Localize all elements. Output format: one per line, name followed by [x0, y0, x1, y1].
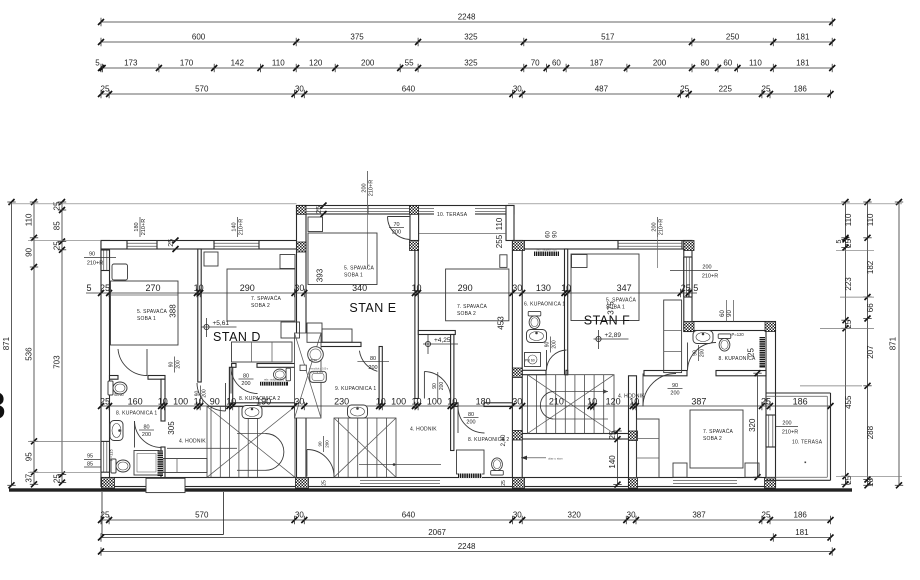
- wall stan F bath bottom b: [716, 371, 766, 376]
- level mark +2,89 stan F: [596, 336, 601, 341]
- svg-text:455: 455: [844, 395, 853, 409]
- svg-text:7. SPAVAĆA: 7. SPAVAĆA: [703, 428, 734, 435]
- svg-text:210+R: 210+R: [141, 219, 147, 235]
- svg-text:210+R: 210+R: [702, 274, 718, 280]
- svg-text:37: 37: [25, 473, 34, 482]
- top dimension row total 2248: [101, 21, 832, 23]
- svg-text:25: 25: [680, 85, 689, 94]
- svg-text:200: 200: [202, 389, 208, 398]
- svg-text:110: 110: [272, 59, 285, 68]
- svg-text:90: 90: [545, 342, 551, 348]
- svg-text:SOBA 2: SOBA 2: [251, 303, 270, 309]
- svg-text:25: 25: [844, 238, 853, 247]
- door stan D bedroom1 (90/200): [118, 349, 147, 376]
- wall stan E bath1 top: [306, 342, 361, 346]
- svg-text:130: 130: [536, 283, 551, 293]
- window label 180/210+R stan D: [139, 217, 141, 237]
- svg-text:10: 10: [411, 397, 421, 407]
- exterior wall right stan F lower: [766, 331, 776, 488]
- exterior wall right stan F upper: [684, 241, 692, 332]
- extension line terrace top to right columns: [508, 203, 902, 205]
- wall stan F bathroom top: [692, 322, 776, 331]
- radiator stan D bath2: [260, 382, 288, 386]
- svg-text:30: 30: [627, 511, 636, 520]
- door stan D hall (90/200): [197, 383, 226, 411]
- door label 90/200 stan F hall: [668, 388, 683, 390]
- wall stan F hall/bedroom2 vertical: [629, 376, 637, 487]
- party wall stan E/F: [512, 241, 522, 488]
- bidet stan F bath1: [527, 330, 547, 343]
- wall stan E bath2 top b: [484, 403, 512, 407]
- pier party E/F at stair wall: [512, 368, 522, 378]
- level mark +5,61 stan D: [204, 324, 209, 329]
- washbasin stan D bath2: [242, 406, 262, 419]
- svg-text:640: 640: [402, 85, 416, 94]
- svg-text:871: 871: [2, 336, 11, 350]
- window label 200/210+R stan F top: [657, 217, 659, 237]
- svg-text:7. SPAVAĆA: 7. SPAVAĆA: [457, 303, 488, 310]
- svg-text:80: 80: [468, 412, 474, 418]
- svg-text:8. KUPAONICA 1: 8. KUPAONICA 1: [116, 411, 157, 417]
- svg-text:536: 536: [25, 347, 34, 361]
- svg-text:200: 200: [782, 421, 791, 427]
- svg-text:+2,89: +2,89: [605, 332, 622, 339]
- toilet stan D bath2: [273, 368, 290, 381]
- right dimension column 110-182-66-207-288-18: [867, 202, 869, 485]
- toilet stan D bath1 upper: [108, 381, 127, 395]
- svg-text:60: 60: [546, 231, 552, 238]
- window label 200/210+R terrace E: [367, 171, 369, 205]
- terrace parapet glazing right section: [419, 208, 435, 210]
- dresser stan E left 2: [322, 329, 352, 342]
- svg-text:2067: 2067: [428, 528, 446, 537]
- svg-text:7. SPAVAĆA: 7. SPAVAĆA: [251, 295, 282, 302]
- door label 80/200 stan D bath2: [239, 378, 254, 380]
- wall stan D bedroom1 bottom b: [148, 376, 165, 380]
- staircase stan D: [207, 407, 295, 478]
- svg-text:703: 703: [53, 355, 62, 369]
- svg-text:70: 70: [531, 59, 540, 68]
- below-ground stair outline left: [101, 492, 103, 535]
- interior vertical dim 25-140 (stan F hall): [617, 431, 619, 485]
- svg-text:bojler na zidu: bojler na zidu: [309, 371, 324, 374]
- door stan F bath1 (90/200): [547, 350, 567, 370]
- svg-text:55: 55: [405, 59, 414, 68]
- svg-text:290: 290: [240, 283, 255, 293]
- terrace parapet top stan E: [297, 206, 515, 215]
- svg-text:3: 3: [0, 386, 6, 428]
- radiator stan F bath2: [760, 337, 766, 368]
- extension line right bath wall y386: [800, 385, 862, 387]
- svg-text:18: 18: [866, 477, 875, 486]
- svg-text:ulaz u stan: ulaz u stan: [548, 457, 563, 461]
- svg-text:25: 25: [762, 511, 771, 520]
- washbasin stan D bath1: [110, 421, 123, 441]
- svg-text:85: 85: [53, 221, 62, 230]
- shower tray stan E bath2: [457, 450, 485, 474]
- svg-text:570: 570: [195, 85, 209, 94]
- svg-text:110: 110: [749, 59, 762, 68]
- svg-text:95: 95: [25, 452, 34, 461]
- shower stan D bath1: [134, 451, 159, 476]
- staircase stan F: [528, 375, 615, 434]
- svg-text:25: 25: [322, 480, 328, 486]
- svg-text:110: 110: [495, 217, 504, 230]
- wall stan F bath bottom a: [644, 371, 687, 376]
- door label 90/200 stan F bath1: [550, 337, 552, 353]
- svg-text:210+R: 210+R: [782, 430, 798, 436]
- wall stan D bath1/hall b: [161, 447, 165, 478]
- svg-text:10: 10: [376, 397, 386, 407]
- svg-text:25: 25: [608, 430, 617, 439]
- bottom dimension row 25-570-30-640-30-320-30-387-25-186: [101, 519, 831, 521]
- radiator stan D corridor: [158, 451, 164, 477]
- svg-text:320: 320: [568, 511, 582, 520]
- bottom dimension row 2067 and 181: [101, 537, 831, 539]
- right dimension column 110-5-25-223-25-455-25: [845, 202, 847, 484]
- window stan D bedroom2 (140/210+R): [214, 241, 259, 250]
- nightstand stan D bedroom1: [112, 264, 128, 280]
- walk line stan E corridor: [359, 464, 441, 466]
- door stan D bath2 (80/200): [231, 367, 258, 393]
- svg-text:570: 570: [195, 511, 209, 520]
- svg-text:90: 90: [89, 252, 95, 258]
- toilet stan F bath1: [528, 311, 541, 328]
- pier stan F bath top right: [765, 322, 776, 332]
- svg-text:210+R: 210+R: [239, 219, 245, 235]
- svg-text:200: 200: [653, 59, 667, 68]
- svg-text:95: 95: [87, 454, 93, 460]
- svg-text:8. KUPAONICA: 8. KUPAONICA: [719, 356, 757, 362]
- svg-text:200: 200: [466, 420, 475, 426]
- svg-text:200: 200: [142, 432, 151, 438]
- svg-text:PR 60: PR 60: [525, 359, 535, 363]
- svg-text:25: 25: [100, 283, 110, 293]
- svg-text:SOBA 1: SOBA 1: [137, 316, 156, 322]
- nightstand stan E bedroom1: [308, 217, 323, 232]
- svg-text:80: 80: [243, 374, 249, 380]
- party wall stan D/E: [297, 206, 307, 487]
- svg-text:25: 25: [761, 397, 771, 407]
- svg-text:80: 80: [701, 59, 710, 68]
- svg-text:SOBA 1: SOBA 1: [344, 273, 363, 279]
- closet stan F hall: [664, 300, 682, 373]
- door stan E bath2 (80/200): [458, 407, 485, 434]
- svg-text:SOBA 1: SOBA 1: [606, 305, 625, 311]
- bathtub stan E bath1: [310, 371, 327, 382]
- pier stan F bath top left: [684, 322, 694, 332]
- dresser stan E left: [307, 323, 322, 342]
- svg-text:255: 255: [495, 234, 504, 248]
- window label 140/210+R stan D: [237, 217, 239, 237]
- svg-text:871: 871: [889, 336, 898, 350]
- washing machine stan F bath1: [525, 353, 541, 367]
- wall stan D bath1/hall a: [161, 379, 165, 421]
- svg-text:10: 10: [226, 397, 236, 407]
- svg-text:25: 25: [53, 241, 62, 250]
- svg-text:25: 25: [101, 85, 110, 94]
- wall box stan E bath1: [300, 365, 306, 371]
- interior dimension row A (room widths 270/290/340/290/130/347): [86, 292, 697, 294]
- bed stan D bedroom2: [227, 269, 295, 321]
- svg-text:200: 200: [325, 440, 330, 448]
- svg-text:25: 25: [762, 85, 771, 94]
- svg-text:5: 5: [95, 59, 100, 68]
- svg-text:90: 90: [672, 383, 678, 389]
- bed stan E bedroom2: [446, 269, 509, 321]
- wall stan F stair hall bottom: [522, 434, 628, 440]
- interior vertical dim 320 (stan F terrace wall): [757, 373, 759, 477]
- pier party D/E at parapet: [297, 206, 307, 215]
- svg-text:207: 207: [866, 345, 875, 359]
- right dimension column 871: [898, 202, 900, 485]
- door label 90/200 stan F bath right: [698, 345, 700, 361]
- door label 90/200 stan E bedroom1: [437, 372, 439, 400]
- bed stan F bedroom1: [571, 254, 639, 321]
- pier stan F southeast: [765, 478, 776, 489]
- svg-text:200: 200: [392, 230, 401, 236]
- wall stan D bath2 left: [229, 367, 232, 403]
- wall stan D stair top: [233, 403, 297, 407]
- svg-text:210+R: 210+R: [87, 261, 103, 267]
- pillow stan D bedroom2: [280, 255, 295, 269]
- svg-text:250: 250: [726, 33, 740, 42]
- closet stan F bedroom2: [637, 419, 660, 478]
- svg-text:25: 25: [53, 474, 62, 483]
- svg-text:5. SPAVAĆA: 5. SPAVAĆA: [344, 265, 375, 272]
- svg-text:181: 181: [795, 528, 809, 537]
- svg-text:90: 90: [210, 397, 220, 407]
- left dimension column 871: [11, 202, 13, 485]
- svg-text:210: 210: [549, 397, 564, 407]
- bottom dimension row 2248: [101, 551, 832, 553]
- svg-text:60: 60: [552, 59, 561, 68]
- svg-text:290: 290: [458, 283, 473, 293]
- wall stan E hall horizontal: [418, 331, 455, 335]
- svg-text:30: 30: [512, 397, 522, 407]
- door label 90/200 stan D bedroom1: [174, 357, 176, 373]
- extension line right terrace bottom: [836, 475, 902, 477]
- exterior wall south: [101, 478, 776, 487]
- svg-text:25: 25: [53, 201, 62, 210]
- svg-text:200: 200: [652, 222, 658, 231]
- svg-text:25: 25: [844, 319, 853, 328]
- svg-text:2248: 2248: [458, 13, 476, 22]
- radiator stan F top wall: [534, 252, 559, 257]
- cabinet row stan D living: [232, 342, 293, 362]
- nightstand stan F bedroom2 right: [745, 463, 759, 477]
- entry arrow stan F: [521, 457, 546, 459]
- svg-text:4. HODNIK: 4. HODNIK: [179, 439, 206, 445]
- svg-text:388: 388: [169, 304, 178, 318]
- svg-text:325: 325: [464, 59, 478, 68]
- svg-text:517: 517: [601, 33, 615, 42]
- svg-text:100: 100: [427, 397, 442, 407]
- svg-text:SOBA 2: SOBA 2: [703, 436, 722, 442]
- svg-text:110: 110: [866, 213, 875, 226]
- svg-text:85: 85: [87, 462, 93, 468]
- svg-text:90: 90: [553, 231, 559, 238]
- terrace parapet right return: [506, 206, 514, 241]
- svg-text:90: 90: [318, 441, 323, 447]
- pier stan F top right corner: [684, 241, 694, 251]
- svg-text:181: 181: [796, 59, 810, 68]
- svg-text:5: 5: [86, 283, 91, 293]
- partition stan D bedrooms: [198, 249, 201, 382]
- svg-text:200: 200: [700, 349, 706, 358]
- wall stan E bath2 left: [451, 335, 454, 451]
- svg-text:90: 90: [25, 247, 34, 256]
- svg-text:10: 10: [561, 283, 571, 293]
- pier stan E bedroom/terrace wall: [410, 241, 419, 251]
- svg-text:80: 80: [143, 425, 149, 431]
- svg-text:90: 90: [727, 310, 733, 317]
- door stan D bath1 (80/200): [135, 421, 162, 448]
- svg-text:487: 487: [595, 85, 609, 94]
- bed stan D bedroom1: [111, 281, 179, 345]
- wall between stan E bedroom and terrace: [410, 214, 419, 241]
- svg-text:10: 10: [158, 397, 168, 407]
- svg-text:25: 25: [100, 397, 110, 407]
- svg-text:60: 60: [720, 310, 726, 317]
- staircase stan E: [334, 418, 396, 477]
- extension line right wall y328: [820, 327, 874, 329]
- svg-text:30: 30: [513, 511, 522, 520]
- wall stan E bath2 top a: [454, 403, 458, 407]
- pier party D/E at main wall: [297, 242, 307, 252]
- window left wall stan D bath (95/85): [101, 441, 110, 472]
- door stan E bedroom1 (90/200): [424, 372, 450, 399]
- extension line right wall y250: [836, 250, 874, 252]
- svg-text:453: 453: [497, 316, 506, 330]
- svg-text:200: 200: [439, 382, 445, 391]
- svg-text:200: 200: [361, 59, 375, 68]
- svg-text:30: 30: [295, 85, 304, 94]
- svg-text:305: 305: [167, 421, 176, 435]
- window stan D bedroom1 (180/210+R): [127, 241, 157, 250]
- top dimension row detail: [101, 67, 832, 69]
- level mark +4,25 stan E: [425, 341, 430, 346]
- svg-text:5. SPAVAĆA: 5. SPAVAĆA: [137, 308, 168, 315]
- svg-text:110: 110: [25, 213, 34, 226]
- svg-text:rebr. radijator 600: rebr. radijator 600: [536, 247, 557, 251]
- window/door stan F to terrace (200/210+R): [766, 415, 776, 447]
- svg-text:80: 80: [370, 356, 376, 362]
- top dimension row walls 25-570-30-640-30-487-25-225-25-186: [101, 93, 831, 95]
- svg-text:288: 288: [866, 425, 875, 439]
- partition stan F bath1/bedroom: [565, 249, 568, 375]
- wall stan E bath1 right: [379, 347, 382, 407]
- radiator stan E bath2: [458, 474, 482, 479]
- svg-text:200: 200: [241, 381, 250, 387]
- svg-text:25: 25: [501, 480, 507, 486]
- svg-text:5. SPAVAĆA: 5. SPAVAĆA: [606, 297, 637, 304]
- svg-text:90: 90: [169, 362, 175, 368]
- pier stan F hall wall mid: [629, 431, 638, 441]
- window stan F right wall (200/210+R): [684, 257, 692, 297]
- window south wall stan F bedroom2: [673, 478, 737, 486]
- partition stan E bedroom1: [415, 250, 418, 399]
- pier party E/F top: [512, 241, 524, 251]
- door label 80/200 stan E bath2: [464, 417, 479, 419]
- door label 80/200 stan D bath1: [139, 429, 154, 431]
- svg-text:5: 5: [836, 239, 843, 243]
- svg-text:387: 387: [691, 397, 706, 407]
- round washbasin stan E bath1: [308, 347, 324, 363]
- extension line window top left: [28, 440, 101, 442]
- terrace stan F outline: [766, 392, 831, 394]
- svg-text:230: 230: [334, 397, 349, 407]
- door stan E bedroom to terrace (70/200): [387, 217, 410, 240]
- exterior wall top stan F: [514, 241, 692, 250]
- svg-text:+4,25: +4,25: [434, 337, 451, 344]
- svg-text:10: 10: [194, 283, 204, 293]
- wall stan D bath2 top b: [257, 364, 297, 368]
- svg-text:347: 347: [617, 283, 632, 293]
- stair void between stan D and E (crossed): [295, 333, 322, 418]
- svg-text:10: 10: [587, 397, 597, 407]
- svg-text:30: 30: [513, 85, 522, 94]
- svg-text:393: 393: [316, 268, 325, 282]
- svg-text:8. KUPAONICA 2: 8. KUPAONICA 2: [468, 437, 509, 443]
- door stan F hall to bedroom2 (90/200): [643, 374, 676, 407]
- svg-text:90: 90: [693, 350, 699, 356]
- entry porch box on ground stan D: [146, 478, 185, 492]
- door label 70/200 terrace E: [389, 227, 404, 229]
- door label 90/200 stan D hall: [200, 386, 202, 402]
- svg-text:187: 187: [590, 59, 604, 68]
- pier stan F hall wall bottom: [629, 478, 638, 489]
- extension line terrace top to left columns: [8, 203, 297, 205]
- wardrobe stan D corridor: [163, 459, 207, 473]
- svg-text:186: 186: [794, 511, 808, 520]
- svg-text:90: 90: [195, 391, 201, 397]
- leader line window label terrace E: [367, 205, 369, 268]
- interior dimension row B (bathroom/stair widths): [101, 405, 831, 407]
- svg-text:66: 66: [866, 303, 875, 312]
- svg-text:182: 182: [866, 260, 875, 274]
- svg-text:200: 200: [670, 391, 679, 397]
- svg-text:2248: 2248: [458, 542, 476, 551]
- door label 90/200 stan E stair door: [323, 436, 325, 452]
- wall stan F stair hall top b: [566, 370, 568, 374]
- pier party D/E bottom: [296, 478, 309, 489]
- svg-text:+5,61: +5,61: [213, 320, 230, 327]
- svg-text:STAN D: STAN D: [213, 330, 261, 344]
- toilet stan F bath2: [718, 334, 731, 351]
- svg-text:10: 10: [411, 283, 421, 293]
- bed stan E bedroom1: [308, 233, 377, 285]
- svg-text:25: 25: [101, 511, 110, 520]
- pier terrace parapet mid: [410, 206, 419, 215]
- svg-text:140: 140: [232, 222, 238, 231]
- exterior wall top stan D: [101, 241, 306, 250]
- svg-text:rebr. radijator 600: rebr. radijator 600: [264, 377, 285, 381]
- svg-text:223: 223: [844, 277, 853, 291]
- svg-text:320: 320: [748, 418, 757, 432]
- svg-text:10: 10: [447, 397, 457, 407]
- svg-text:SOBA 2: SOBA 2: [457, 311, 476, 317]
- left dimension column 110-90-536-95-37: [33, 202, 35, 484]
- svg-text:186: 186: [794, 85, 808, 94]
- svg-text:225: 225: [719, 85, 733, 94]
- pillow stan F bedroom1: [572, 255, 588, 268]
- svg-text:173: 173: [124, 59, 138, 68]
- svg-text:60: 60: [723, 59, 732, 68]
- terrace stan F floor dot: [805, 462, 807, 464]
- door stan F bath right (90/200): [688, 342, 717, 370]
- extension line main wall left: [28, 240, 101, 242]
